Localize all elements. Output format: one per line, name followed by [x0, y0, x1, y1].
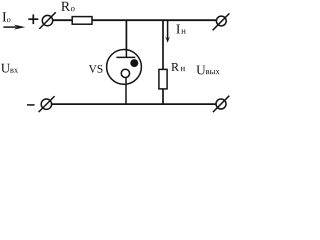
label In: [176, 25, 185, 34]
label Uvx input voltage: [1, 64, 18, 73]
terminal top-left: [39, 12, 55, 29]
terminal bottom-right: [213, 96, 229, 112]
arrow In current direction: [165, 20, 170, 43]
minus polarity sign: [27, 104, 35, 106]
wire top rail right segment: [92, 19, 217, 21]
label Uvyx output voltage: [196, 66, 219, 75]
label Io: [3, 12, 11, 22]
wire VS anode branch: [125, 20, 127, 50]
resistor Rn: [159, 69, 167, 89]
VS cathode circle: [121, 69, 129, 77]
VS gas-fill dot: [130, 59, 138, 67]
VS anode bar: [116, 56, 135, 58]
wire Rn branch upper: [162, 20, 164, 69]
label VS: [89, 65, 103, 73]
label Rn: [171, 63, 185, 71]
wire bottom rail: [52, 103, 217, 105]
gas-discharge tube VS: [107, 49, 142, 104]
wire VS cathode lead: [125, 78, 127, 105]
terminal bottom-left: [39, 96, 55, 112]
arrow Io current direction: [3, 25, 25, 30]
wire Rn branch lower: [162, 89, 164, 105]
terminal top-right: [213, 13, 230, 30]
VS anode lead inside: [125, 49, 127, 57]
label Ro: [61, 2, 74, 12]
resistor Ro: [72, 17, 92, 25]
wire top rail left segment: [53, 19, 73, 21]
plus polarity sign: [28, 14, 38, 24]
